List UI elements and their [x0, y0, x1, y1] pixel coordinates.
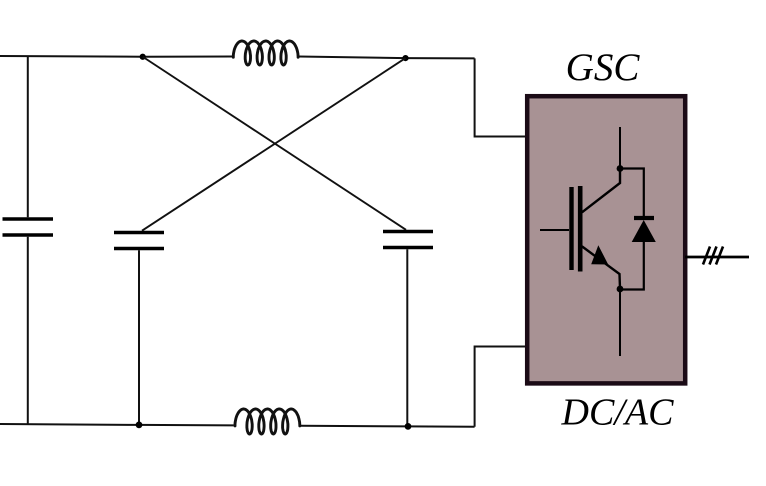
wire C3 bottom lead [406, 249, 408, 426]
wire C1 bottom lead [27, 237, 29, 424]
wire diode branch top [620, 169, 644, 217]
node A junction dot top-left [140, 54, 146, 60]
inductor L2 (bottom) [235, 409, 300, 434]
wire top bus right of inductor [299, 57, 475, 59]
converter block GSC (DC/AC) [527, 96, 685, 383]
wire AC output line [685, 256, 749, 259]
IGBT Q1 emitter diagonal [582, 246, 620, 288]
capacitor C3 [383, 232, 433, 248]
IGBT Q1 emitter lead [619, 289, 621, 356]
IGBT Q1 body bar [578, 186, 583, 272]
wire C1 top lead [27, 56, 29, 217]
IGBT Q1 emitter arrow [591, 245, 608, 264]
wire top bus from left edge to right corner [0, 55, 232, 58]
wire top right down-jog into converter [475, 58, 527, 136]
wire diode branch bottom [620, 242, 644, 290]
capacitor C2 [114, 233, 164, 249]
wire bottom right up-jog into converter [475, 347, 527, 427]
IGBT Q1 collector lead [619, 127, 621, 169]
svg-text:DC/AC: DC/AC [561, 391, 675, 433]
wire diagonal D1 node A to capacitor C3 [143, 57, 406, 230]
inductor L1 (top) [233, 41, 298, 65]
wire C2 bottom lead [138, 250, 140, 425]
node collector junction dot [617, 165, 624, 172]
wire bottom bus right of inductor [300, 426, 474, 427]
junction dot bottom-left node C [136, 422, 143, 429]
three-phase slash marks [703, 247, 723, 265]
junction dot bottom-right node D [405, 423, 412, 430]
wire bottom bus from left edge to inductor [0, 424, 234, 425]
IGBT Q1 gate bar [569, 187, 573, 270]
svg-text:GSC: GSC [566, 46, 641, 89]
node emitter junction dot [617, 286, 624, 293]
diode D5 [632, 218, 656, 242]
node B junction dot top-right [402, 55, 408, 61]
IGBT Q1 collector diagonal [582, 169, 620, 213]
capacitor C1 [3, 219, 54, 235]
IGBT Q1 gate lead [540, 229, 569, 231]
wire diagonal D2 node B to capacitor C2 [142, 58, 406, 231]
